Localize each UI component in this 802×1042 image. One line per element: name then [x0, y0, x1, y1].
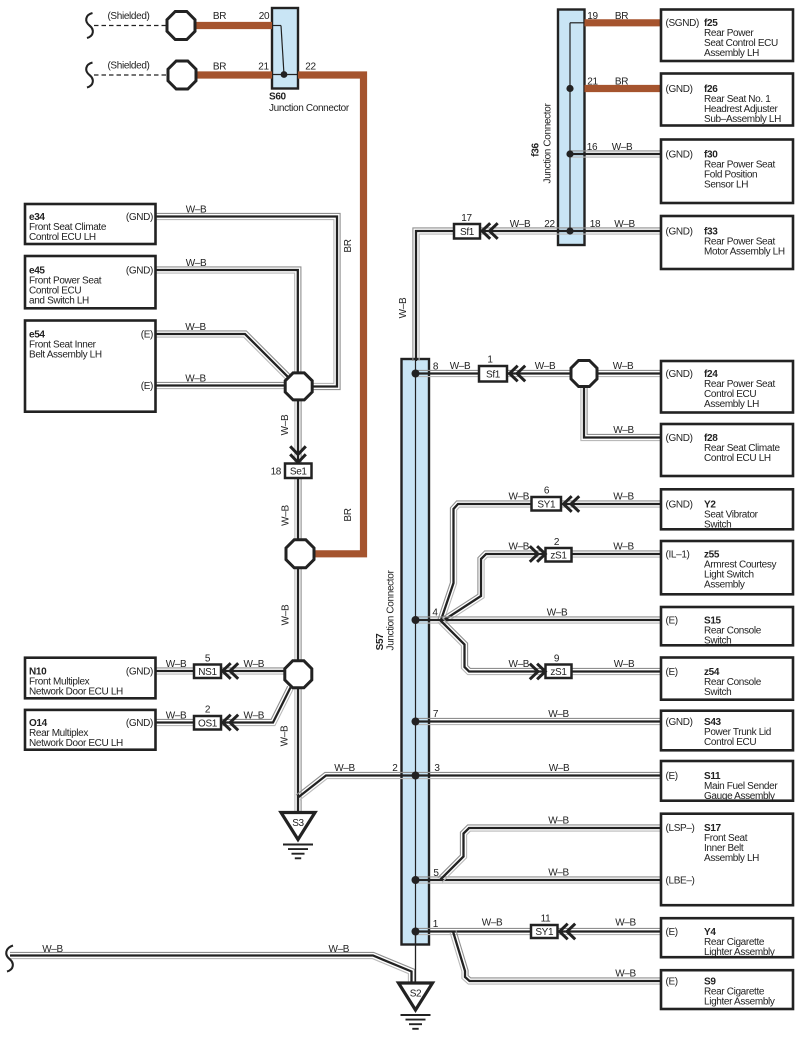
svg-text:Gauge Assembly: Gauge Assembly: [704, 791, 775, 802]
svg-text:(GND): (GND): [666, 149, 693, 160]
svg-text:5: 5: [433, 868, 439, 879]
svg-text:17: 17: [461, 213, 472, 224]
svg-text:(GND): (GND): [666, 499, 693, 510]
svg-text:BR: BR: [213, 11, 226, 22]
svg-text:W–B: W–B: [281, 604, 292, 625]
svg-text:f36: f36: [531, 143, 542, 157]
svg-text:W–B: W–B: [614, 219, 635, 230]
svg-text:18: 18: [271, 467, 282, 478]
svg-text:Lighter Assembly: Lighter Assembly: [704, 947, 775, 958]
svg-text:22: 22: [544, 219, 555, 230]
svg-text:1: 1: [487, 355, 493, 366]
svg-text:Switch: Switch: [704, 519, 731, 530]
svg-text:W–B: W–B: [280, 414, 291, 435]
svg-text:Lighter Assembly: Lighter Assembly: [704, 996, 775, 1007]
svg-text:and Switch LH: and Switch LH: [29, 295, 89, 306]
svg-text:W–B: W–B: [613, 361, 634, 372]
svg-text:(IL–1): (IL–1): [666, 549, 690, 560]
svg-text:Assembly LH: Assembly LH: [704, 399, 759, 410]
svg-text:W–B: W–B: [612, 142, 633, 153]
svg-text:W–B: W–B: [450, 361, 471, 372]
svg-text:SY1: SY1: [535, 927, 554, 938]
svg-text:1: 1: [433, 919, 439, 930]
svg-text:BR: BR: [213, 62, 226, 73]
svg-text:5: 5: [205, 654, 211, 665]
svg-text:W–B: W–B: [185, 374, 206, 385]
svg-text:(E): (E): [666, 615, 678, 626]
svg-text:W–B: W–B: [547, 608, 568, 619]
svg-text:(E): (E): [666, 771, 678, 782]
svg-text:W–B: W–B: [549, 763, 570, 774]
svg-text:(GND): (GND): [126, 212, 153, 223]
svg-text:S2: S2: [410, 989, 422, 1000]
svg-text:W–B: W–B: [548, 816, 569, 827]
svg-text:W–B: W–B: [615, 918, 636, 929]
svg-text:(GND): (GND): [666, 226, 693, 237]
svg-text:(GND): (GND): [666, 433, 693, 444]
svg-text:W–B: W–B: [186, 205, 207, 216]
svg-text:W–B: W–B: [613, 492, 634, 503]
svg-text:W–B: W–B: [280, 725, 291, 746]
svg-text:zS1: zS1: [550, 550, 567, 561]
svg-text:BR: BR: [343, 508, 354, 521]
svg-text:(E): (E): [666, 667, 678, 678]
svg-text:(GND): (GND): [126, 265, 153, 276]
svg-text:16: 16: [587, 142, 598, 153]
svg-text:2: 2: [554, 537, 560, 548]
svg-text:(LSP–): (LSP–): [666, 823, 695, 834]
svg-text:W–B: W–B: [281, 505, 292, 526]
svg-text:W–B: W–B: [334, 763, 355, 774]
svg-text:(SGND): (SGND): [666, 18, 699, 29]
svg-text:NS1: NS1: [198, 667, 217, 678]
svg-text:4: 4: [432, 608, 438, 619]
svg-text:W–B: W–B: [482, 918, 503, 929]
svg-text:W–B: W–B: [398, 297, 409, 318]
svg-text:Se1: Se1: [290, 466, 308, 477]
svg-text:Switch: Switch: [704, 687, 731, 698]
svg-text:W–B: W–B: [166, 659, 187, 670]
svg-text:Sf1: Sf1: [460, 227, 475, 238]
svg-text:21: 21: [587, 77, 598, 88]
svg-text:W–B: W–B: [535, 361, 556, 372]
svg-text:Network Door ECU LH: Network Door ECU LH: [29, 686, 123, 697]
svg-text:W–B: W–B: [508, 542, 529, 553]
svg-text:BR: BR: [615, 77, 628, 88]
svg-text:Junction Connector: Junction Connector: [386, 570, 397, 651]
svg-text:9: 9: [554, 654, 560, 665]
svg-text:W–B: W–B: [508, 492, 529, 503]
svg-text:W–B: W–B: [166, 711, 187, 722]
svg-text:Belt Assembly LH: Belt Assembly LH: [29, 349, 102, 360]
svg-text:8: 8: [433, 362, 439, 373]
svg-text:Sf1: Sf1: [486, 369, 501, 380]
svg-text:(E): (E): [141, 381, 153, 392]
svg-text:W–B: W–B: [548, 709, 569, 720]
svg-text:Switch: Switch: [704, 635, 731, 646]
svg-text:Assembly LH: Assembly LH: [704, 853, 759, 864]
svg-text:7: 7: [433, 709, 439, 720]
svg-text:Sub–Assembly LH: Sub–Assembly LH: [704, 114, 781, 125]
svg-text:S60: S60: [269, 92, 287, 103]
svg-text:W–B: W–B: [510, 219, 531, 230]
svg-text:(LBE–): (LBE–): [666, 875, 695, 886]
svg-text:BR: BR: [343, 239, 354, 252]
svg-text:W–B: W–B: [613, 425, 634, 436]
svg-text:S3: S3: [292, 818, 304, 829]
svg-text:W–B: W–B: [548, 868, 569, 879]
svg-text:W–B: W–B: [186, 258, 207, 269]
svg-text:W–B: W–B: [243, 659, 264, 670]
svg-text:2: 2: [392, 763, 398, 774]
svg-text:3: 3: [434, 763, 440, 774]
svg-text:(GND): (GND): [126, 666, 153, 677]
svg-text:(GND): (GND): [666, 369, 693, 380]
svg-text:zS1: zS1: [550, 667, 567, 678]
svg-text:18: 18: [590, 219, 601, 230]
svg-text:W–B: W–B: [614, 659, 635, 670]
svg-text:Network Door ECU LH: Network Door ECU LH: [29, 738, 123, 749]
svg-text:Control ECU LH: Control ECU LH: [29, 232, 96, 243]
svg-text:W–B: W–B: [243, 711, 264, 722]
svg-text:W–B: W–B: [508, 659, 529, 670]
svg-text:20: 20: [259, 11, 270, 22]
svg-text:19: 19: [587, 11, 598, 22]
svg-text:11: 11: [541, 914, 551, 925]
svg-text:S57: S57: [375, 633, 386, 651]
svg-text:W–B: W–B: [613, 542, 634, 553]
svg-text:6: 6: [544, 486, 550, 497]
svg-text:(GND): (GND): [666, 84, 693, 95]
svg-text:(E): (E): [141, 329, 153, 340]
svg-text:Assembly: Assembly: [704, 579, 745, 590]
svg-text:Junction Connector: Junction Connector: [543, 103, 554, 184]
svg-text:(E): (E): [666, 927, 678, 938]
svg-text:W–B: W–B: [615, 969, 636, 980]
svg-text:(Shielded): (Shielded): [107, 11, 149, 22]
svg-text:Motor Assembly LH: Motor Assembly LH: [704, 246, 785, 257]
svg-text:22: 22: [305, 62, 316, 73]
svg-text:Control ECU: Control ECU: [704, 737, 756, 748]
svg-text:OS1: OS1: [198, 718, 218, 729]
svg-text:Assembly LH: Assembly LH: [704, 48, 759, 59]
svg-text:21: 21: [258, 62, 269, 73]
svg-text:(GND): (GND): [126, 718, 153, 729]
svg-text:W–B: W–B: [185, 322, 206, 333]
svg-text:Control ECU LH: Control ECU LH: [704, 453, 771, 464]
svg-text:W–B: W–B: [328, 944, 349, 955]
svg-text:Junction Connector: Junction Connector: [269, 103, 350, 114]
svg-text:Sensor LH: Sensor LH: [704, 179, 748, 190]
svg-text:(GND): (GND): [666, 717, 693, 728]
svg-text:2: 2: [205, 705, 211, 716]
svg-text:W–B: W–B: [42, 944, 63, 955]
svg-text:(Shielded): (Shielded): [107, 61, 149, 72]
svg-text:SY1: SY1: [537, 499, 556, 510]
svg-text:(E): (E): [666, 976, 678, 987]
svg-text:BR: BR: [615, 11, 628, 22]
